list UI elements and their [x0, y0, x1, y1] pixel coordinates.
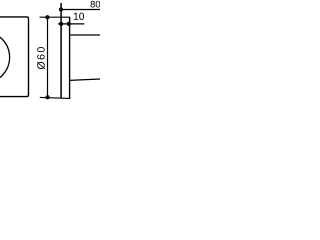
dimension text 80: [91, 1, 101, 8]
dimension text 10: [74, 13, 84, 20]
dimension dot 10 left: [60, 22, 63, 25]
dimension dot 80: [60, 8, 63, 11]
dimension text Ø60 rotated: [37, 47, 45, 69]
dimension dot Ø60 bottom: [46, 96, 49, 99]
bottom projection line: [40, 97, 70, 98]
dimension line Ø60 vertical: [47, 17, 49, 97]
side view right edge: [69, 17, 71, 98]
front view square plate: [0, 17, 29, 97]
top projection line: [40, 16, 71, 18]
dimension dot Ø60 top: [46, 16, 49, 19]
dimension dot 10 right: [67, 22, 70, 25]
right lower branch line: [70, 79, 100, 80]
side view left edge / extension line for 80: [60, 3, 62, 98]
right upper branch line: [70, 34, 100, 36]
circle Ø60 bore (cropped at left edge): [0, 31, 10, 83]
dimension line 80: [61, 9, 100, 11]
dimension line 10: [58, 23, 84, 25]
